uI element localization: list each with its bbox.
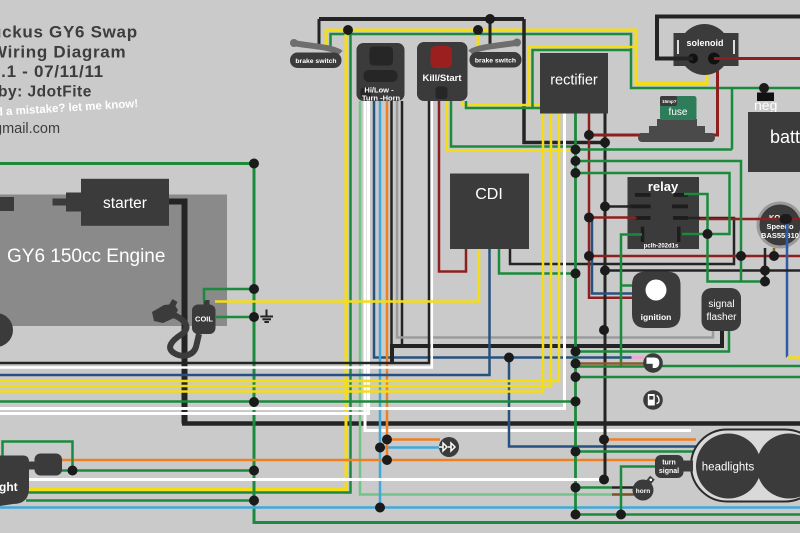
wire: dark red rail over KOSO bbox=[756, 218, 800, 221]
headlight bulb right bbox=[757, 434, 800, 499]
svg-text:solenoid: solenoid bbox=[686, 38, 723, 48]
wire: black hi/low drop 1 bbox=[390, 101, 393, 346]
node junction (575.5,149.5) bbox=[571, 145, 581, 155]
wire: green icon row bbox=[576, 365, 645, 368]
node junction (589,217.5) bbox=[584, 213, 594, 223]
wire: green main vertical bus bbox=[574, 114, 577, 515]
wire: black loop stub inside relay bbox=[688, 217, 700, 220]
wire: navy CDI to left edge bbox=[0, 249, 490, 375]
spark plug icon bbox=[152, 299, 178, 323]
wire: rectifier yellow pin 3 to left edge bbox=[0, 114, 559, 382]
wire: black hi/low drop 2 bbox=[401, 101, 404, 346]
wire: orange tail light to turn signal bbox=[61, 459, 655, 462]
svg-text:horn: horn bbox=[636, 488, 650, 495]
svg-text:Kill/Start: Kill/Start bbox=[422, 73, 462, 84]
svg-text:headlights: headlights bbox=[702, 462, 755, 474]
wire: dark red relay feed bbox=[589, 216, 635, 219]
svg-text:ignition: ignition bbox=[641, 312, 672, 322]
node junction (478,30) bbox=[473, 25, 483, 35]
wire: pale green from hi/low to horn bbox=[360, 101, 612, 495]
node junction (589,135) bbox=[584, 130, 594, 140]
node junction (575.5,451.5) bbox=[571, 447, 581, 457]
wire: black CDI to relay loop bbox=[510, 218, 734, 264]
wire: black relay feed bbox=[605, 205, 631, 208]
wire: black solenoid to top right edge bbox=[657, 17, 800, 59]
node junction (604,330) bbox=[599, 325, 609, 335]
tail light connector bbox=[35, 454, 63, 476]
svg-text:starter: starter bbox=[103, 195, 147, 212]
wire: black rectifier pin down to white-end bbox=[604, 114, 607, 480]
wire: green relay bottom-right pin bbox=[682, 233, 708, 236]
ignition coil body bbox=[192, 305, 216, 335]
relay pins bbox=[630, 193, 689, 242]
tail light connector link bbox=[29, 462, 36, 470]
wire: green turn signal drop bbox=[621, 467, 655, 515]
svg-text:pclh-202d1s: pclh-202d1s bbox=[644, 244, 679, 250]
wire: orange from black bus to headlights bbox=[604, 438, 696, 441]
horn bell bbox=[646, 475, 656, 485]
svg-text:signal: signal bbox=[659, 468, 679, 475]
wire: yellow tail light riser bbox=[28, 30, 346, 490]
svg-text:turn: turn bbox=[662, 460, 676, 467]
wire: gray hi/low to signal flasher bbox=[397, 101, 713, 338]
svg-text:relay: relay bbox=[648, 179, 679, 194]
node junction (254,402) bbox=[249, 397, 259, 407]
solenoid left terminal bbox=[688, 54, 698, 64]
wire: green kill/start to green bus bbox=[451, 101, 576, 150]
hi/low inner button 3 bbox=[361, 88, 372, 99]
wire: dark red rectifier pin down bbox=[589, 114, 632, 298]
node junction (707.5,234) bbox=[703, 229, 713, 239]
node junction (765,281.5) bbox=[760, 277, 770, 287]
wire: dark red fuse rail bbox=[589, 59, 718, 136]
engine crankcase bump bbox=[0, 313, 13, 347]
right brake lever bbox=[471, 39, 522, 53]
wire: green left rail to bus bbox=[0, 400, 576, 403]
wire: rectifier yellow pin 2 to left edge bbox=[0, 114, 551, 387]
wire: green branch into ignition bbox=[621, 284, 632, 287]
wire: pink tip into indicator icon bbox=[632, 356, 645, 359]
node junction (774,256) bbox=[769, 251, 779, 261]
svg-text:GY6 150cc Engine: GY6 150cc Engine bbox=[7, 246, 165, 267]
node junction (575.5,514.5) bbox=[571, 510, 581, 520]
wire: yellow top rail bbox=[326, 30, 707, 84]
wire: green icon row right bbox=[662, 365, 800, 368]
wire: navy from hi/low to indicator icon bbox=[374, 101, 632, 358]
node junction (575.5,173) bbox=[571, 168, 581, 178]
wire: black flasher bus bbox=[392, 331, 722, 363]
node junction (589,256) bbox=[584, 251, 594, 261]
ground symbol bbox=[260, 310, 273, 323]
svg-text:batter: batter bbox=[770, 127, 800, 147]
wire: light blue from hi/low down bbox=[379, 101, 382, 508]
wire: green tail light lower rail bbox=[26, 499, 254, 502]
svg-text:Wiring Diagram: Wiring Diagram bbox=[0, 43, 126, 62]
node junction (575.5,363.5) bbox=[571, 359, 581, 369]
title text block bbox=[0, 23, 139, 138]
node junction (387,460) bbox=[382, 455, 392, 465]
svg-text:fuse: fuse bbox=[669, 107, 688, 118]
starter nozzle step 2 bbox=[53, 199, 67, 206]
node: speedo blue junction bbox=[780, 214, 790, 224]
wire: navy relay area to ignition bbox=[592, 219, 632, 294]
wire: green relay left pin to ignition and icon row bbox=[621, 235, 642, 367]
node junction (254,500.5) bbox=[249, 496, 259, 506]
wire: orange stub to passing icon bbox=[387, 438, 440, 441]
spark plug cable bbox=[170, 315, 199, 356]
kill switch red button bbox=[431, 46, 453, 68]
battery negative terminal bbox=[757, 93, 774, 102]
node junction (575.5,161) bbox=[571, 156, 581, 166]
wire: yellow kill/start to green bus bbox=[447, 101, 576, 151]
coil terminal nipple bbox=[204, 300, 210, 307]
node junction (764,88) bbox=[759, 83, 769, 93]
wire: green bus to solenoid loop joint bbox=[576, 148, 733, 151]
node junction (741,256) bbox=[736, 251, 746, 261]
svg-text:ght: ght bbox=[0, 480, 18, 494]
node junction (575.5,351.5) bbox=[571, 347, 581, 357]
passing switch icon bbox=[439, 437, 459, 457]
hi/low inner button 2 bbox=[364, 70, 398, 82]
node junction (604,439.5) bbox=[599, 435, 609, 445]
wire: rectifier white pin to left edge bbox=[0, 114, 565, 409]
starter nozzle step 1 bbox=[66, 193, 82, 212]
fuse amp tag bbox=[660, 96, 677, 106]
kill/start switch module bbox=[417, 42, 468, 101]
node junction (575.5,401.5) bbox=[571, 397, 581, 407]
svg-text:brake switch: brake switch bbox=[475, 58, 516, 65]
wire: green coil to ground bbox=[215, 316, 256, 319]
svg-text:CDI: CDI bbox=[475, 186, 503, 203]
wire: green flasher pin to bus bbox=[576, 331, 730, 352]
node junction (604,479.5) bbox=[599, 475, 609, 485]
left brake switch label bbox=[290, 53, 342, 69]
KOSO speedo bbox=[757, 202, 800, 249]
fuel gauge icon bbox=[643, 390, 663, 410]
wire: green rail 377 bbox=[576, 376, 800, 379]
wire: orange from hi/low down bbox=[386, 101, 389, 460]
wire: black drop to left brake lever bbox=[318, 19, 321, 45]
node junction (787,219) bbox=[782, 214, 792, 224]
tail light body bbox=[0, 456, 29, 507]
wire: green kill/start right to rectifier bbox=[466, 101, 540, 108]
wire: dark red rail right of relay over KOSO bbox=[699, 218, 800, 221]
node junction (765,270.5) bbox=[760, 266, 770, 276]
turn signal connector stub bbox=[680, 461, 693, 472]
node junction (605,206.5) bbox=[600, 202, 610, 212]
node junction (348,30) bbox=[343, 25, 353, 35]
wire: green coil to main bus top bbox=[204, 289, 254, 301]
wire: green bus to headlights bbox=[576, 450, 697, 453]
wire: starter black to ground bus bbox=[169, 202, 185, 424]
headlight bulb left bbox=[696, 434, 761, 499]
starter motor body bbox=[81, 179, 169, 226]
wire: black ground bus bottom bbox=[182, 421, 800, 426]
wire: dark red main rail bbox=[589, 255, 800, 258]
rectifier box bbox=[540, 53, 608, 114]
CDI box bbox=[450, 174, 529, 250]
wire: dark red feed stub inside relay bbox=[627, 217, 637, 220]
relay box bbox=[628, 177, 700, 249]
solenoid right terminal bbox=[708, 53, 720, 65]
ignition switch body bbox=[632, 272, 681, 329]
battery box bbox=[748, 112, 800, 172]
wire: black KOSO pin bbox=[764, 248, 767, 282]
svg-text:neg: neg bbox=[754, 97, 777, 113]
node junction (254,163.5) bbox=[249, 159, 259, 169]
wire: green relay top pin loop down to KOSO row bbox=[684, 194, 765, 282]
wire: black kill/start to left edge bbox=[0, 101, 429, 363]
fuse holder base bbox=[640, 119, 713, 140]
engine left lug bbox=[0, 197, 14, 211]
node junction (387,439.5) bbox=[382, 435, 392, 445]
svg-text:flasher: flasher bbox=[706, 312, 737, 323]
horn bbox=[633, 480, 654, 501]
wire: black feed stub inside relay bbox=[627, 205, 631, 208]
hi/low-turn-horn switch module bbox=[357, 43, 405, 101]
wire: olive KOSO pin bbox=[773, 248, 776, 256]
svg-text:signal: signal bbox=[708, 299, 734, 310]
node junction (605,270.5) bbox=[600, 266, 610, 276]
wire: green from bus to relay right loop bbox=[576, 173, 730, 234]
svg-text:by: JdotFite: by: JdotFite bbox=[0, 84, 92, 101]
engine block bbox=[0, 195, 227, 327]
wire: black tip into horn bbox=[612, 486, 634, 489]
wire: navy drop to headlights bbox=[509, 358, 696, 447]
node junction (509,357.5) bbox=[504, 353, 514, 363]
turn indicator icon bbox=[643, 353, 663, 373]
fuse body bbox=[660, 96, 697, 120]
svg-text:brake switch: brake switch bbox=[295, 58, 336, 65]
node junction (254,289) bbox=[249, 284, 259, 294]
wire: green wrap corner bbox=[533, 50, 633, 108]
wire: black drop to right brake lever bbox=[489, 19, 492, 47]
wire: brown bus to indicator icon bbox=[576, 362, 645, 365]
wire: green tail light riser bbox=[28, 34, 351, 493]
wire: white kill/start to left edge bbox=[0, 101, 432, 368]
wire: black top rail bbox=[319, 17, 524, 21]
wire: black elbow down to relay black feed bbox=[524, 19, 605, 143]
wire: rectifier yellow pin 1 to left edge bbox=[0, 114, 543, 392]
hi/low inner button 1 bbox=[370, 47, 394, 66]
node junction (380,447.5) bbox=[375, 443, 385, 453]
wire: black rail from black bus to right edge bbox=[605, 269, 800, 272]
svg-text:gmail.com: gmail.com bbox=[0, 121, 60, 137]
left brake lever bbox=[290, 39, 341, 53]
svg-text:COIL: COIL bbox=[195, 315, 213, 324]
node junction (490,19) bbox=[485, 14, 495, 24]
wire: white from hi/low to left edge bbox=[0, 101, 369, 414]
node junction (575.5,487.5) bbox=[571, 483, 581, 493]
wire: yellow kill/start right to rectifier bbox=[462, 101, 540, 105]
node junction (254,317) bbox=[249, 312, 259, 322]
wire: green CDI to green bus bbox=[499, 249, 576, 274]
headlights container bbox=[691, 430, 800, 502]
wire: white from hi/low to headlights bbox=[365, 101, 691, 431]
svg-text:Speedo: Speedo bbox=[766, 222, 794, 231]
wire: brown tip into horn bbox=[612, 493, 634, 496]
node junction (605,142.5) bbox=[600, 138, 610, 148]
svg-text:1.1 - 07/11/11: 1.1 - 07/11/11 bbox=[0, 62, 104, 81]
node junction (72.5,470.5) bbox=[68, 466, 78, 476]
signal flasher box bbox=[702, 288, 742, 331]
wire: green drop to rectifier green bus bbox=[731, 88, 734, 150]
wire: yellow speedo stub bbox=[787, 356, 800, 359]
solenoid body bbox=[674, 33, 739, 66]
right brake switch label bbox=[470, 52, 522, 68]
wire: yellow CDI to coil bbox=[215, 249, 479, 302]
wire: white tail light rail bbox=[26, 478, 605, 481]
wire: yellow wrap corner bbox=[529, 47, 638, 105]
wire: light blue bottom rail bbox=[0, 506, 800, 509]
wire: dark red solenoid to right edge bbox=[714, 57, 800, 60]
turn signal label bbox=[655, 455, 684, 478]
wire: green bus to horn bbox=[576, 486, 613, 489]
node junction (621,514.5) bbox=[616, 510, 626, 520]
wire: blue speedo drop over KOSO bbox=[786, 219, 789, 248]
wire: yellow drop to right brake lever bbox=[477, 30, 480, 48]
wire: green from bus down right of battery bbox=[576, 161, 742, 282]
wire: green bus bottom rail bbox=[576, 513, 800, 516]
wire: green battery neg stub bbox=[763, 88, 766, 93]
wire: green tail light rail bbox=[61, 469, 254, 472]
wire: green tail light top loop bbox=[3, 442, 73, 471]
svg-text:15mp?: 15mp? bbox=[662, 99, 677, 104]
wire: dark red kill/start to CDI bbox=[439, 101, 466, 272]
node junction (254,470.5) bbox=[249, 466, 259, 476]
node junction (380,507.5) bbox=[375, 503, 385, 513]
svg-text:BAS55B10: BAS55B10 bbox=[761, 231, 799, 240]
node junction (575.5,377) bbox=[571, 372, 581, 382]
wire: green engine rail to main green bus bbox=[0, 164, 800, 523]
wire: light blue stub to passing icon bbox=[380, 446, 440, 449]
svg-text:uckus GY6 Swap: uckus GY6 Swap bbox=[0, 23, 138, 42]
start button bbox=[436, 87, 448, 100]
svg-text:rectifier: rectifier bbox=[550, 73, 598, 89]
wire: green top rail bbox=[331, 34, 800, 88]
wire: blue speedo drop bbox=[786, 219, 789, 358]
node junction (575.5,273.5) bbox=[571, 269, 581, 279]
